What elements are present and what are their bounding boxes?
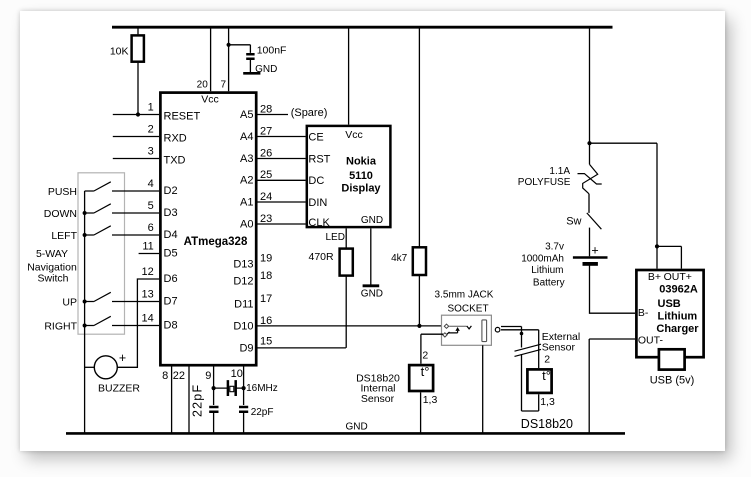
svg-text:22pF: 22pF [251, 407, 274, 418]
svg-text:470R: 470R [309, 251, 335, 263]
svg-text:OUT+: OUT+ [664, 271, 692, 283]
svg-text:B-: B- [638, 307, 649, 319]
svg-text:26: 26 [260, 148, 272, 160]
svg-text:A2: A2 [240, 175, 253, 187]
svg-text:LED: LED [326, 232, 345, 243]
svg-text:RST: RST [308, 154, 330, 166]
svg-text:RXD: RXD [164, 133, 187, 145]
svg-text:1: 1 [148, 102, 154, 114]
svg-text:2: 2 [422, 350, 428, 362]
svg-text:03962A: 03962A [659, 284, 698, 296]
svg-text:Vcc: Vcc [345, 129, 363, 141]
svg-text:D9: D9 [239, 342, 253, 354]
svg-text:B+: B+ [648, 271, 661, 283]
svg-text:19: 19 [260, 253, 272, 265]
svg-text:Nokia: Nokia [346, 155, 377, 167]
svg-text:1000mAh: 1000mAh [521, 253, 564, 264]
svg-text:DOWN: DOWN [44, 208, 77, 220]
svg-text:1,3: 1,3 [540, 396, 555, 408]
svg-text:7: 7 [220, 79, 226, 90]
svg-text:13: 13 [142, 289, 154, 301]
svg-text:18: 18 [260, 270, 272, 282]
svg-text:14: 14 [142, 313, 154, 325]
svg-text:Sw: Sw [566, 215, 581, 227]
svg-text:5-WAY: 5-WAY [36, 248, 68, 260]
svg-text:ATmega328: ATmega328 [184, 236, 248, 248]
svg-text:D8: D8 [164, 320, 178, 332]
svg-text:D6: D6 [164, 273, 178, 285]
svg-text:GND: GND [255, 64, 277, 75]
svg-text:CLK: CLK [308, 217, 330, 229]
svg-text:Vcc: Vcc [201, 94, 219, 106]
svg-text:D12: D12 [233, 276, 253, 288]
svg-text:27: 27 [260, 126, 272, 138]
svg-text:Lithium: Lithium [658, 311, 698, 323]
svg-text:2: 2 [148, 124, 154, 136]
svg-text:BUZZER: BUZZER [98, 382, 140, 394]
svg-text:t°: t° [421, 364, 430, 379]
svg-text:10: 10 [231, 368, 243, 380]
svg-text:4: 4 [148, 178, 154, 190]
svg-text:22: 22 [173, 370, 185, 382]
svg-text:RESET: RESET [164, 111, 201, 123]
svg-text:A0: A0 [240, 219, 253, 231]
svg-text:2: 2 [544, 354, 550, 366]
svg-text:12: 12 [142, 266, 154, 278]
svg-text:PUSH: PUSH [48, 186, 77, 198]
svg-text:D10: D10 [233, 321, 253, 333]
svg-text:5110: 5110 [349, 170, 373, 182]
svg-text:10K: 10K [110, 45, 129, 57]
svg-text:Display: Display [341, 183, 381, 195]
svg-text:4k7: 4k7 [391, 253, 408, 264]
svg-text:24: 24 [260, 191, 272, 203]
svg-text:6: 6 [148, 222, 154, 234]
svg-text:GND: GND [346, 422, 368, 433]
svg-text:POLYFUSE: POLYFUSE [518, 177, 571, 188]
svg-text:22pF: 22pF [191, 384, 205, 417]
svg-text:Switch: Switch [38, 272, 69, 284]
svg-text:A3: A3 [240, 153, 253, 165]
svg-text:A1: A1 [240, 197, 253, 209]
svg-text:D4: D4 [164, 229, 178, 241]
svg-text:TXD: TXD [164, 155, 186, 167]
svg-text:OUT-: OUT- [638, 335, 664, 347]
svg-text:DS18b20: DS18b20 [521, 417, 573, 431]
svg-text:100nF: 100nF [257, 45, 287, 57]
svg-text:Battery: Battery [533, 278, 565, 289]
svg-text:RIGHT: RIGHT [44, 320, 77, 332]
svg-text:28: 28 [260, 104, 272, 116]
svg-text:Lithium: Lithium [531, 265, 563, 276]
svg-text:20: 20 [197, 79, 209, 90]
svg-text:D11: D11 [234, 299, 253, 311]
svg-text:9: 9 [205, 370, 211, 382]
svg-text:t°: t° [542, 368, 551, 383]
svg-text:LEFT: LEFT [51, 230, 77, 242]
svg-text:15: 15 [260, 336, 272, 348]
svg-text:11: 11 [142, 241, 153, 253]
svg-text:SOCKET: SOCKET [447, 304, 488, 315]
svg-text:+: + [591, 244, 598, 258]
svg-text:D13: D13 [233, 258, 253, 270]
svg-text:5: 5 [148, 200, 154, 212]
svg-text:D5: D5 [164, 248, 178, 260]
svg-text:DC: DC [308, 175, 324, 187]
svg-text:17: 17 [260, 293, 272, 305]
svg-text:Charger: Charger [656, 323, 699, 335]
svg-text:GND: GND [361, 215, 383, 226]
svg-text:16MHz: 16MHz [246, 383, 278, 394]
svg-text:CE: CE [308, 132, 323, 144]
svg-text:(Spare): (Spare) [291, 107, 328, 119]
svg-text:A5: A5 [240, 109, 253, 121]
svg-text:D7: D7 [164, 296, 178, 308]
svg-text:Sensor: Sensor [361, 393, 395, 405]
svg-text:1,3: 1,3 [423, 394, 438, 406]
svg-text:GND: GND [361, 288, 383, 299]
svg-text:3.5mm JACK: 3.5mm JACK [435, 289, 494, 300]
svg-text:8: 8 [162, 370, 168, 382]
svg-text:Sensor: Sensor [542, 341, 576, 353]
svg-text:25: 25 [260, 169, 272, 181]
svg-text:USB (5v): USB (5v) [650, 375, 695, 387]
svg-text:D2: D2 [164, 185, 178, 197]
svg-text:+: + [119, 351, 126, 365]
svg-text:3.7v: 3.7v [545, 242, 564, 253]
svg-text:USB: USB [658, 298, 681, 310]
svg-text:D3: D3 [164, 207, 178, 219]
svg-text:23: 23 [260, 213, 272, 225]
svg-text:16: 16 [260, 315, 272, 327]
svg-text:UP: UP [62, 296, 77, 308]
svg-text:3: 3 [148, 146, 154, 158]
svg-text:1.1A: 1.1A [549, 166, 570, 177]
svg-text:DIN: DIN [308, 197, 327, 209]
svg-text:A4: A4 [240, 131, 253, 143]
